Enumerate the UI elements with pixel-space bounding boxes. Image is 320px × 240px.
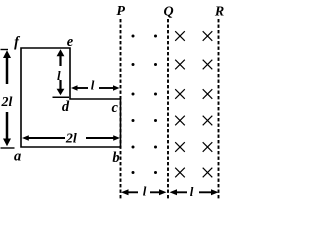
svg-text:2l: 2l (1, 95, 13, 110)
svg-text:l: l (190, 184, 194, 199)
svg-text:l: l (57, 68, 61, 83)
svg-text:2l: 2l (65, 132, 77, 147)
svg-text:b: b (112, 150, 119, 166)
svg-text:Q: Q (163, 4, 173, 19)
svg-text:a: a (14, 149, 21, 165)
svg-text:l: l (143, 184, 147, 199)
svg-text:c: c (111, 100, 118, 116)
svg-text:l: l (91, 78, 95, 93)
svg-text:P: P (116, 4, 125, 19)
svg-text:d: d (62, 99, 70, 115)
svg-text:e: e (67, 34, 74, 50)
svg-text:R: R (214, 4, 224, 19)
